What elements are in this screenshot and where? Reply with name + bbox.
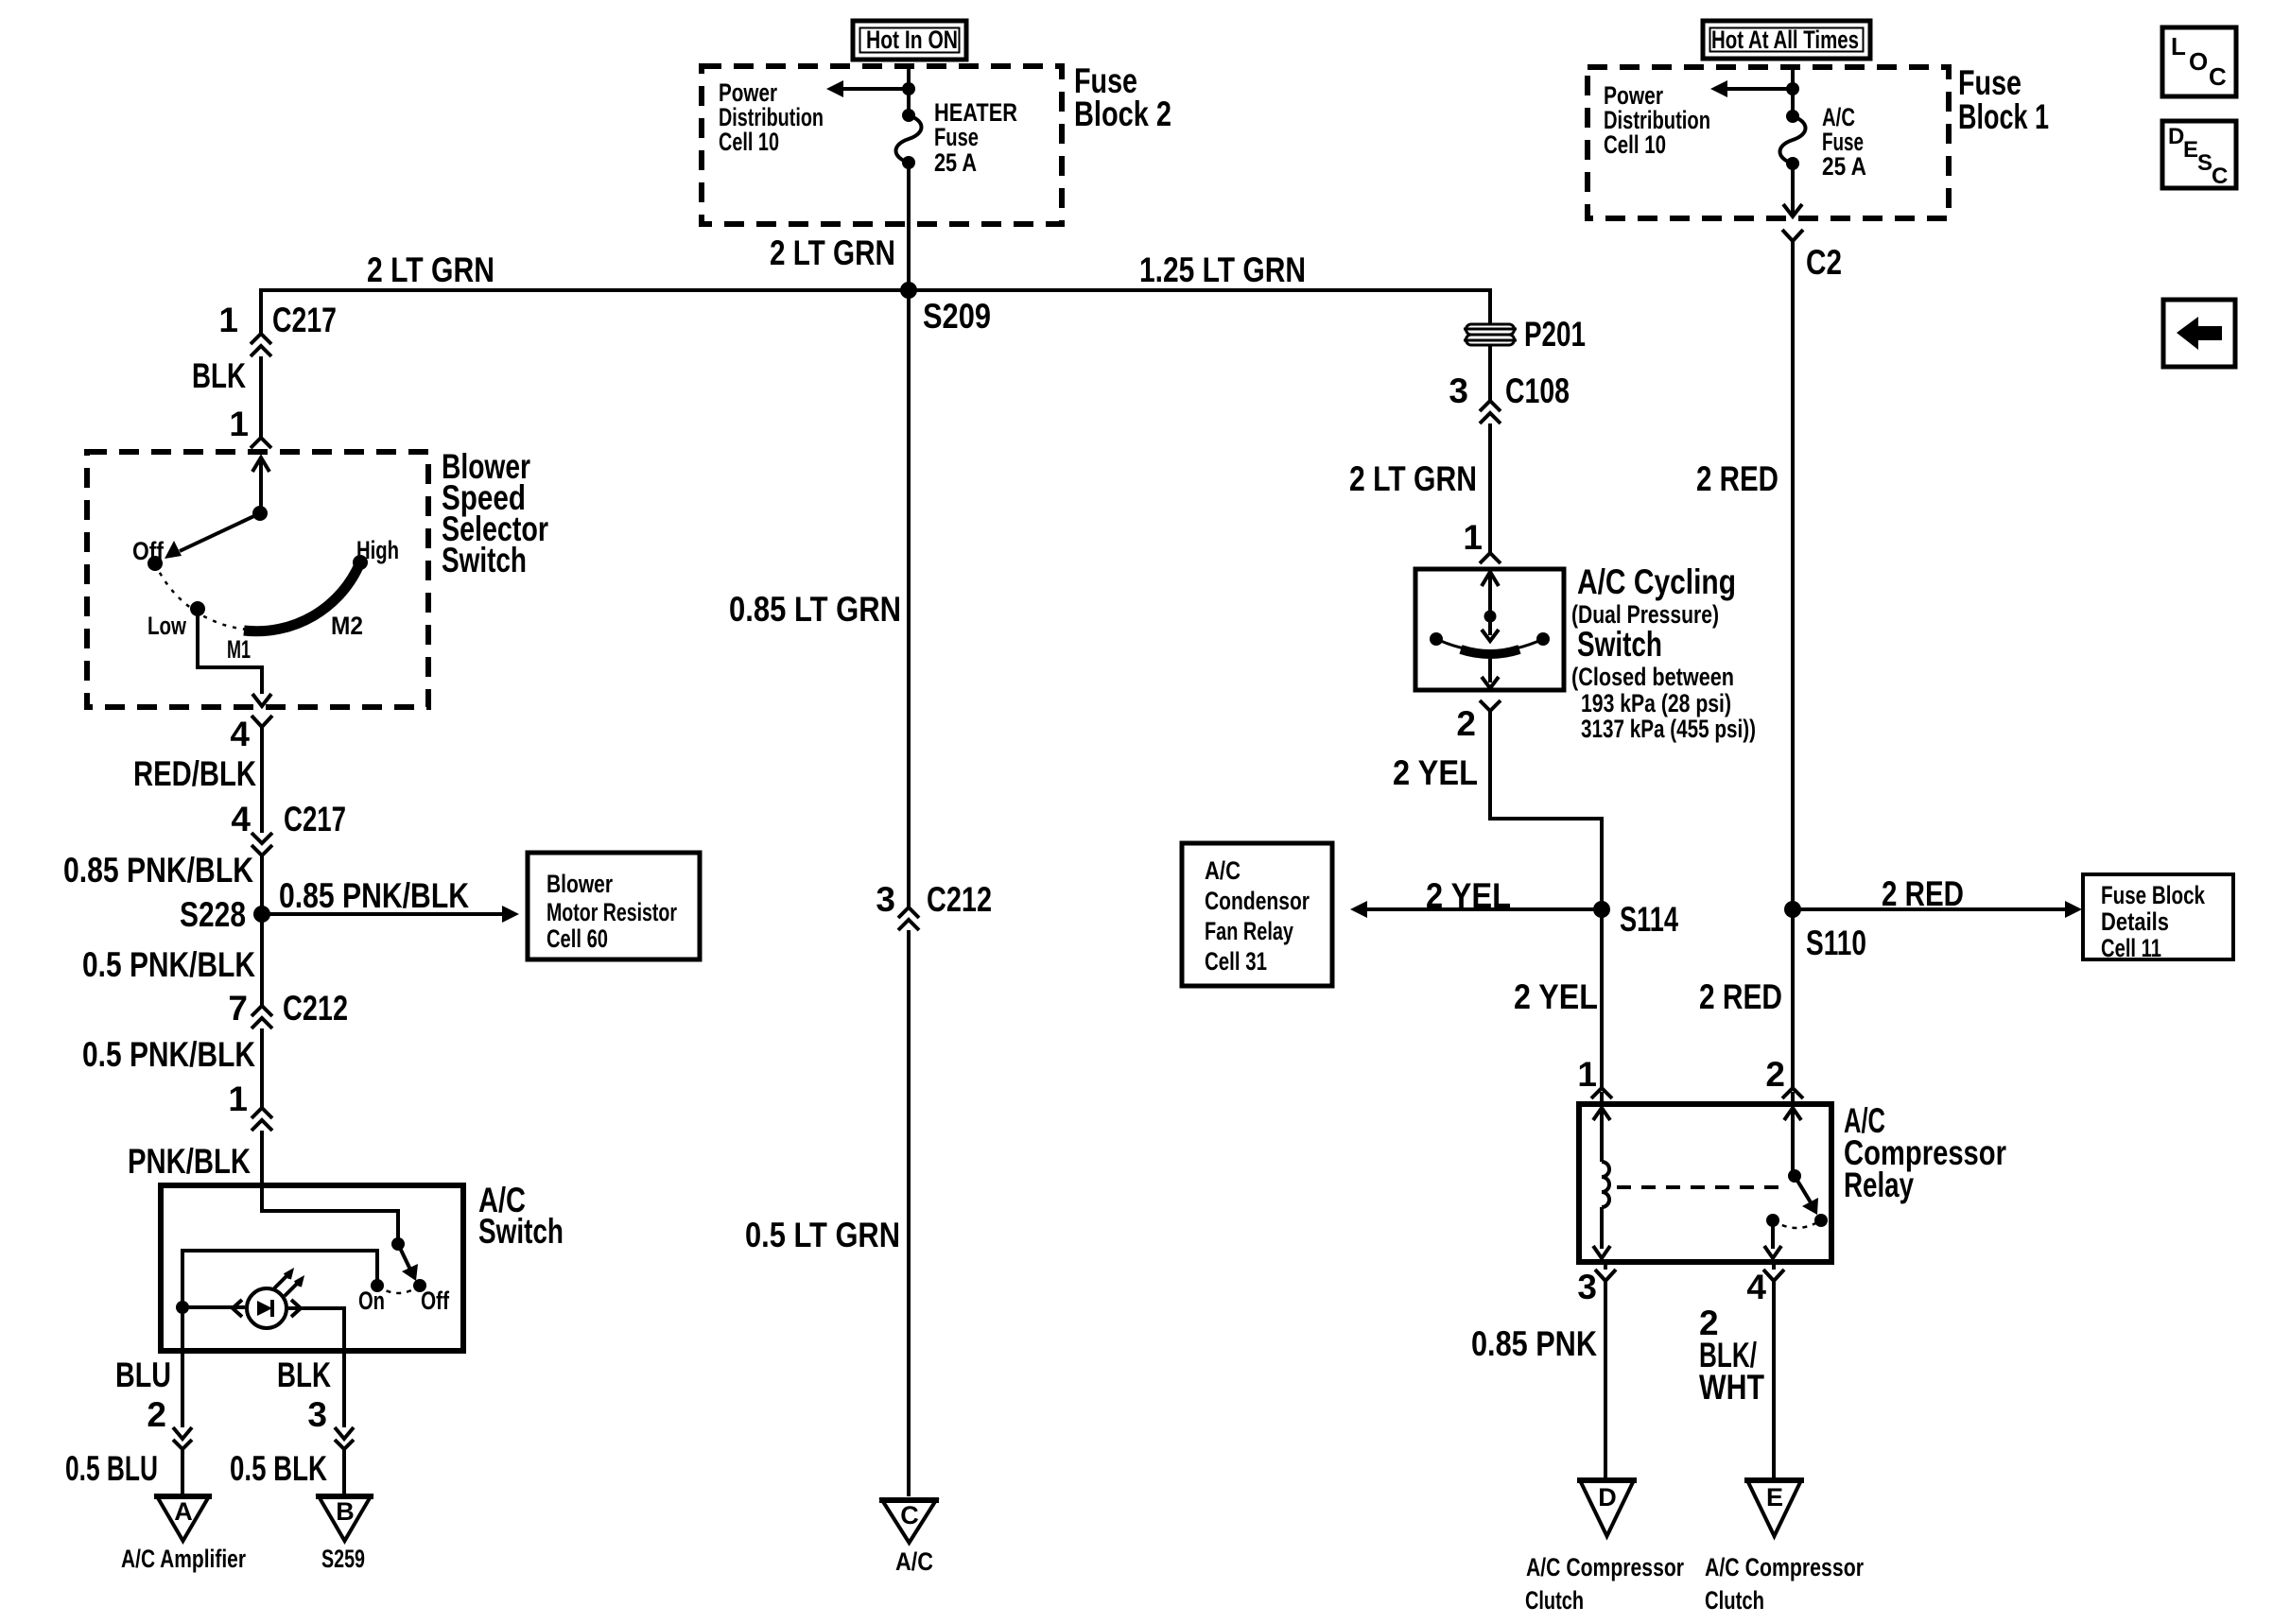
contact Off (132, 537, 165, 571)
svg-text:D: D (2168, 124, 2184, 149)
connector triangle D (1525, 1480, 1684, 1615)
wire heater fuse output 2 LT GRN (770, 68, 909, 290)
connector pin 4 below blower box (230, 715, 272, 753)
wire On to lamp branch (182, 1251, 377, 1302)
wire BLK (192, 356, 261, 437)
connector pin 2 below cycling switch (1456, 700, 1501, 743)
svg-text:WHT: WHT (1699, 1368, 1764, 1407)
svg-text:25 A: 25 A (934, 148, 977, 177)
power label Hot At All Times (1703, 21, 1870, 59)
svg-text:2 RED: 2 RED (1882, 874, 1964, 913)
connector pin 4 relay (1746, 1268, 1784, 1306)
wire 0.85 PNK/BLK to blower motor resistor (262, 876, 519, 923)
svg-text:Switch: Switch (442, 541, 527, 579)
node Power Distribution Cell 10 (block 2) (719, 78, 824, 156)
wire RED/BLK (133, 735, 262, 833)
svg-text:BLK: BLK (192, 356, 246, 395)
svg-text:0.85 PNK: 0.85 PNK (1471, 1324, 1597, 1363)
svg-text:S228: S228 (180, 895, 246, 934)
svg-text:Cell 11: Cell 11 (2101, 934, 2161, 962)
svg-text:Fan Relay: Fan Relay (1205, 917, 1293, 945)
svg-text:2 RED: 2 RED (1699, 977, 1782, 1016)
svg-text:A/C Compressor: A/C Compressor (1526, 1553, 1684, 1581)
svg-text:Off: Off (421, 1287, 450, 1315)
svg-text:Fuse Block: Fuse Block (2101, 881, 2206, 909)
fuse A/C 25 A (1780, 103, 1867, 181)
connector C212 pin 7 (228, 989, 348, 1028)
fuse block 2 dashed box (702, 61, 1171, 224)
contact Off (413, 1279, 450, 1315)
svg-text:0.85 LT GRN: 0.85 LT GRN (729, 590, 901, 629)
wire to power distribution (block 1) (1710, 80, 1799, 97)
svg-text:3: 3 (1449, 371, 1468, 410)
svg-text:(Closed between: (Closed between (1571, 663, 1734, 691)
svg-text:2: 2 (1456, 704, 1476, 743)
wire BLK (230, 1351, 354, 1494)
svg-text:2 LT GRN: 2 LT GRN (367, 251, 495, 289)
node S209 (900, 282, 991, 336)
wire 0.85 PNK/BLK (63, 851, 262, 1005)
indicator lamp LED (233, 1271, 302, 1328)
svg-text:3: 3 (1577, 1268, 1597, 1306)
svg-text:C108: C108 (1505, 371, 1570, 410)
wire 2 YEL cycling to S114 (1393, 718, 1602, 909)
svg-text:M2: M2 (331, 612, 363, 640)
wire lamp line right (288, 1308, 344, 1351)
svg-text:7: 7 (228, 989, 248, 1028)
svg-text:M1: M1 (227, 635, 251, 664)
svg-text:O: O (2189, 47, 2208, 76)
svg-text:4: 4 (231, 800, 251, 838)
svg-text:C212: C212 (283, 989, 348, 1028)
wire 2 RED from C2 to S110 (1696, 249, 1793, 909)
wire 0.85 LT GRN mid column (729, 290, 909, 907)
svg-text:0.85 PNK/BLK: 0.85 PNK/BLK (279, 876, 469, 915)
svg-text:2 RED: 2 RED (1696, 459, 1778, 498)
svg-text:High: High (356, 536, 399, 564)
contact On (358, 1279, 385, 1315)
wire 2 LT GRN to cycling switch (1349, 423, 1490, 552)
svg-text:Block 1: Block 1 (1958, 97, 2049, 136)
svg-text:BLU: BLU (115, 1356, 171, 1394)
contact High (353, 536, 399, 570)
connector pin 2 relay (1765, 1055, 1803, 1104)
node S228 (180, 895, 270, 934)
grommet P201 (1464, 315, 1586, 354)
wire BLU (65, 1307, 192, 1494)
svg-text:1: 1 (1463, 518, 1483, 557)
connector C2 (1782, 230, 1842, 282)
connector C217 pin 1 (218, 301, 337, 356)
svg-text:Clutch: Clutch (1705, 1586, 1764, 1615)
relay dashed actuator line (1617, 1185, 1783, 1189)
svg-text:D: D (1598, 1483, 1617, 1512)
wire Low output (198, 609, 271, 706)
node S114 (1593, 900, 1678, 939)
svg-text:Hot At All Times: Hot At All Times (1711, 26, 1859, 54)
svg-text:Cell 60: Cell 60 (547, 924, 608, 953)
A/C compressor relay box (1579, 1101, 2006, 1262)
svg-text:0.5 BLK: 0.5 BLK (230, 1449, 327, 1488)
wire A/C switch feed to pivot (262, 1185, 405, 1251)
svg-text:1: 1 (1577, 1055, 1597, 1094)
svg-text:0.5 LT GRN: 0.5 LT GRN (745, 1216, 900, 1254)
svg-text:P201: P201 (1524, 315, 1586, 354)
svg-text:S114: S114 (1620, 900, 1678, 939)
svg-text:2 LT GRN: 2 LT GRN (770, 233, 895, 272)
svg-text:RED/BLK: RED/BLK (133, 754, 256, 793)
connector pin 1 blower switch (229, 405, 271, 448)
wire A/C fuse output with down arrow (1783, 68, 1802, 216)
wire 2 BLK/WHT (1699, 1262, 1774, 1478)
svg-text:E: E (2183, 137, 2198, 163)
connector pin 1 cycling switch (1463, 518, 1501, 563)
svg-text:PNK/BLK: PNK/BLK (128, 1142, 251, 1181)
svg-text:Relay: Relay (1844, 1166, 1914, 1204)
cycling switch internals (1430, 572, 1550, 688)
A/C cycling switch box (1415, 562, 1756, 743)
dashed arc On-Off (377, 1286, 420, 1293)
svg-text:0.85 PNK/BLK: 0.85 PNK/BLK (63, 851, 253, 890)
svg-text:Low: Low (147, 612, 187, 640)
svg-text:Cell 10: Cell 10 (719, 128, 779, 156)
A/C condensor fan relay cell 31 box (1182, 843, 1332, 986)
node Power Distribution Cell 10 (block 1) (1604, 81, 1710, 159)
svg-text:2 YEL: 2 YEL (1393, 753, 1478, 792)
svg-text:C: C (900, 1501, 919, 1529)
svg-text:Motor Resistor: Motor Resistor (547, 898, 677, 926)
svg-text:193 kPa (28 psi): 193 kPa (28 psi) (1581, 689, 1731, 717)
svg-text:Cell 10: Cell 10 (1604, 130, 1666, 159)
dashed rotor arc (155, 563, 248, 630)
svg-text:Details: Details (2101, 907, 2169, 936)
svg-text:25 A: 25 A (1822, 152, 1866, 181)
svg-text:2 LT GRN: 2 LT GRN (1349, 459, 1477, 498)
wire 2 YEL to condensor fan relay (1350, 876, 1602, 918)
svg-text:A/C: A/C (1205, 856, 1241, 885)
node lamp junction (176, 1301, 189, 1314)
icon LOC box (2162, 27, 2236, 96)
connector triangle E (1705, 1480, 1864, 1615)
svg-text:2 YEL: 2 YEL (1514, 977, 1598, 1016)
svg-text:BLK: BLK (277, 1356, 331, 1394)
node S110 (1784, 901, 1866, 962)
svg-text:C: C (2212, 164, 2228, 189)
svg-text:E: E (1766, 1483, 1783, 1512)
connector pin 3 relay (1577, 1268, 1616, 1306)
svg-text:1.25 LT GRN: 1.25 LT GRN (1139, 251, 1306, 289)
svg-text:Hot In ON: Hot In ON (866, 26, 958, 54)
icon back arrow box (2163, 300, 2235, 367)
svg-text:3: 3 (876, 880, 895, 919)
svg-text:0.5 BLU: 0.5 BLU (65, 1449, 158, 1488)
svg-text:C: C (2209, 62, 2227, 91)
connector C217 pin 4 (231, 800, 346, 855)
relay coil (1593, 1108, 1610, 1258)
svg-text:S209: S209 (923, 297, 991, 336)
svg-text:Block 2: Block 2 (1074, 95, 1171, 133)
svg-text:S: S (2197, 150, 2212, 176)
connector triangle C (879, 1500, 939, 1576)
A/C switch arm to Off (398, 1244, 418, 1281)
svg-text:Clutch: Clutch (1525, 1586, 1584, 1615)
wire 2 RED S110 to relay pin 2 (1699, 909, 1793, 1087)
svg-text:C2: C2 (1806, 243, 1842, 282)
wire 2 RED to fuse block details (1793, 874, 2082, 918)
svg-text:Off: Off (132, 537, 165, 565)
svg-text:Fuse: Fuse (1958, 63, 2021, 102)
wire PNK/BLK (128, 1131, 262, 1211)
wire bus 2 LT GRN / 1.25 LT GRN (261, 251, 1490, 333)
connector pin 1 A/C switch (228, 1080, 272, 1131)
power label Hot In ON (853, 21, 966, 60)
svg-text:Switch: Switch (1577, 625, 1662, 664)
svg-text:Blower: Blower (547, 870, 613, 898)
svg-text:0.5 PNK/BLK: 0.5 PNK/BLK (82, 1035, 255, 1074)
wire to power distribution (block 2) (826, 80, 915, 97)
connector pin 1 relay (1577, 1055, 1612, 1104)
wire 0.5 PNK/BLK lower (82, 1028, 262, 1107)
fuse block 1 dashed box (1588, 63, 2049, 218)
connector triangle A (121, 1496, 246, 1573)
connector C108 pin 3 (1449, 371, 1570, 423)
wire 0.85 PNK (1471, 1262, 1605, 1478)
fuse block details cell 11 box (2083, 874, 2233, 962)
svg-text:1: 1 (229, 405, 249, 443)
contact Low (147, 601, 205, 640)
relay switch (1764, 1108, 1828, 1258)
fuse HEATER 25 A (896, 98, 1018, 177)
svg-text:S110: S110 (1806, 924, 1866, 962)
blower motor resistor cell 60 box (528, 853, 700, 959)
svg-text:4: 4 (230, 715, 250, 753)
svg-text:2: 2 (1765, 1055, 1785, 1094)
svg-text:On: On (358, 1287, 385, 1315)
blower switch feed arrow (252, 458, 269, 521)
svg-text:L: L (2171, 32, 2186, 60)
svg-text:Switch: Switch (478, 1212, 564, 1251)
svg-text:C217: C217 (272, 301, 337, 339)
svg-text:A/C Cycling: A/C Cycling (1577, 562, 1736, 601)
connector C212 pin 3 (876, 880, 992, 930)
svg-text:3137 kPa (455 psi)): 3137 kPa (455 psi)) (1581, 715, 1756, 743)
svg-text:3: 3 (307, 1395, 327, 1434)
svg-text:C217: C217 (284, 800, 346, 838)
A/C switch box (161, 1181, 564, 1351)
wire 0.5 LT GRN (745, 930, 909, 1496)
svg-text:A/C: A/C (895, 1547, 933, 1576)
svg-text:S259: S259 (321, 1545, 365, 1573)
svg-text:2: 2 (147, 1395, 166, 1434)
wire P201 to C108 (1488, 346, 1492, 400)
svg-text:C212: C212 (927, 880, 992, 919)
svg-text:Condensor: Condensor (1205, 887, 1310, 915)
svg-text:B: B (336, 1497, 355, 1526)
svg-text:A/C Compressor: A/C Compressor (1705, 1553, 1864, 1581)
svg-text:2 YEL: 2 YEL (1426, 876, 1511, 915)
wire lamp line left (182, 1305, 245, 1309)
svg-text:0.5 PNK/BLK: 0.5 PNK/BLK (82, 945, 255, 984)
svg-text:4: 4 (1746, 1268, 1766, 1306)
svg-text:Cell 31: Cell 31 (1205, 947, 1267, 976)
thick rotor arc M1 M2 (244, 562, 360, 631)
connector triangle B (316, 1496, 373, 1573)
wire 2 YEL S114 to relay pin 1 (1514, 909, 1602, 1087)
svg-text:1: 1 (228, 1080, 248, 1118)
svg-text:1: 1 (218, 301, 238, 339)
svg-text:A: A (174, 1497, 193, 1526)
blower switch wiper arm (165, 513, 260, 559)
svg-text:A/C Amplifier: A/C Amplifier (121, 1545, 246, 1573)
icon DESC box (2162, 121, 2236, 189)
blower speed selector switch dashed box (87, 447, 548, 707)
svg-text:Fuse: Fuse (934, 123, 979, 151)
